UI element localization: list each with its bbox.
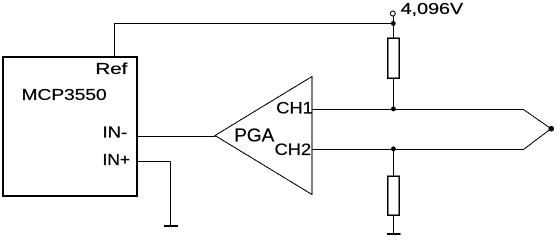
- svg-text:IN-: IN-: [103, 125, 128, 142]
- wire terminal stub: [393, 16, 395, 24]
- svg-text:IN+: IN+: [103, 152, 131, 169]
- svg-text:PGA: PGA: [234, 126, 274, 146]
- svg-text:Ref: Ref: [95, 61, 128, 78]
- svg-text:MCP3550: MCP3550: [22, 87, 107, 104]
- svg-text:4,096V: 4,096V: [401, 1, 464, 18]
- resistor R2: [388, 176, 400, 215]
- wire CH1 output: [312, 110, 551, 129]
- junction dot CH1: [391, 107, 396, 112]
- wire CH2 line to R2: [393, 150, 395, 177]
- junction dot ref rail: [391, 21, 396, 26]
- IC U1 MCP3550 body: [3, 57, 137, 196]
- svg-text:CH1: CH1: [276, 100, 313, 118]
- wire CH2 output: [312, 129, 551, 150]
- svg-text:CH2: CH2: [275, 141, 312, 159]
- wire Ref pin up: [114, 23, 116, 57]
- resistor R1: [388, 38, 400, 78]
- wire R1 to CH1 line: [393, 78, 395, 110]
- wire R2 to ground: [393, 215, 395, 234]
- op-amp PGA triangle: [215, 77, 312, 195]
- ground bar IN+: [164, 225, 178, 227]
- ground bar R2: [387, 233, 401, 235]
- wire top rail to 4.096V node: [114, 23, 394, 25]
- wire rail to R1: [393, 24, 395, 39]
- wire IN- to PGA input: [137, 136, 216, 138]
- wire IN+ down to ground: [170, 162, 172, 226]
- terminal 4.096V open circle: [390, 11, 395, 16]
- junction dot CH2: [391, 147, 396, 152]
- node output dot: [549, 126, 555, 132]
- wire IN+ across: [137, 161, 171, 163]
